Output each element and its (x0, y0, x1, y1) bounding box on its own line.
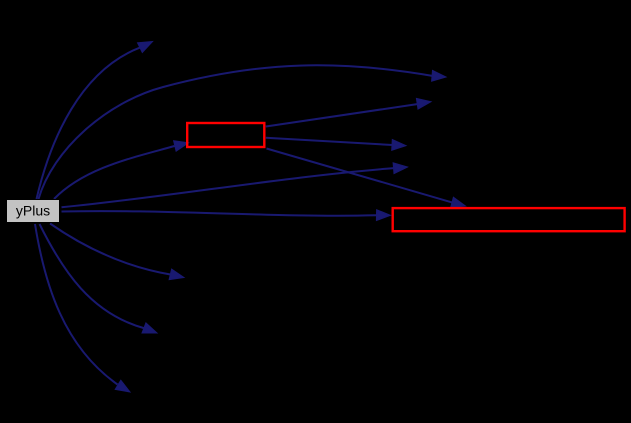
edge yPlus->node top-left (37, 42, 153, 200)
edge yPlus->node bottom (35, 224, 130, 392)
edge yPlus->node upper-right (39, 65, 447, 199)
edge yPlus->node lower (40, 224, 158, 333)
edge yPlus->node mid-right (62, 163, 408, 208)
edge yPlus->red box 1 (54, 141, 189, 199)
edge yPlus->node lower-mid (50, 224, 184, 280)
svg-text:yPlus: yPlus (16, 203, 50, 219)
edge yPlus->red box 2 left (62, 210, 391, 221)
node red box 2 (truncated dependency) (393, 208, 625, 231)
node yPlus (current node, grey fill) (7, 200, 60, 223)
edge red box 1->node right (266, 138, 406, 151)
edge red box 1->red box 2 top (267, 149, 466, 208)
node red box 1 (truncated dependency) (187, 123, 264, 147)
edge red box 1->node far right-up (266, 98, 431, 126)
